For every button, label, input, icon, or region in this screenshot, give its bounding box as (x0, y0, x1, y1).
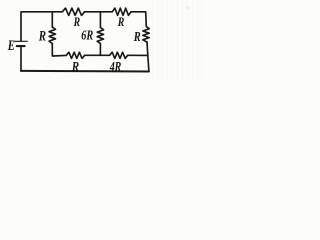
battery E negative plate (17, 45, 25, 47)
svg-text:R: R (71, 59, 79, 74)
svg-text:R: R (133, 30, 141, 45)
resistor R4 (middle vertical, 6R) (97, 28, 103, 44)
wire top-right corner down to R5 (131, 12, 146, 27)
wire left branch to inner bottom wire (52, 44, 66, 57)
wire bottom outer (21, 70, 149, 73)
wire inner bottom between R6 and R7 (85, 54, 110, 56)
svg-text:4R: 4R (109, 60, 121, 75)
svg-text:R: R (38, 28, 46, 44)
svg-text:R: R (73, 14, 80, 29)
wire top between R1 and R2 (85, 11, 113, 13)
resistor R6 (bottom-left, R) (66, 52, 84, 58)
wire middle branch to inner bottom wire (99, 44, 101, 56)
wire battery negative to bottom (20, 47, 22, 71)
resistor R3 (left vertical, R) (49, 27, 55, 44)
wire right edge below R5 to bottom-right corner (147, 42, 149, 71)
resistor R2 (top-right, R) (112, 8, 131, 15)
svg-text:R: R (117, 14, 125, 29)
resistor R1 (top-left, R) (62, 8, 84, 15)
wire left branch from top wire (51, 12, 53, 27)
resistor R7 (bottom-right, 4R) (110, 52, 128, 58)
svg-text:6R: 6R (81, 28, 93, 43)
wire top from battery to R1 (21, 12, 62, 41)
wire inner bottom right end (128, 54, 148, 56)
wire middle branch from top wire (99, 12, 101, 28)
battery E positive plate (15, 40, 27, 42)
scan artifact streaks (right margin) (153, 0, 202, 81)
svg-text:E: E (7, 38, 15, 54)
resistor R5 (right vertical, R) (143, 27, 149, 43)
